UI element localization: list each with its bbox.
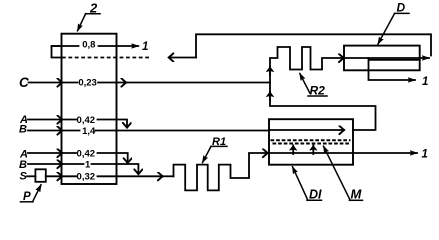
svg-text:1,4: 1,4 (82, 126, 96, 137)
wire D bottoms output (369, 70, 416, 80)
resistor R2 (meander) (270, 47, 344, 70)
svg-text:1: 1 (85, 160, 91, 171)
wire S to column (46, 175, 62, 177)
label 2 (78, 0, 101, 30)
svg-text:B: B (19, 124, 27, 136)
svg-text:0,42: 0,42 (77, 148, 96, 159)
label DI (293, 167, 323, 202)
wire feed through DI with arrow (269, 129, 344, 131)
wire 1 line merging down (62, 164, 138, 174)
wire recycle top run from D exit (196, 34, 431, 57)
svg-text:0,32: 0,32 (77, 172, 96, 183)
wire 0,8 product line (52, 45, 139, 47)
permeate arrow 1 (292, 145, 294, 154)
label M (324, 146, 363, 201)
svg-text:1: 1 (422, 148, 428, 160)
column 2 (separator block) (62, 34, 117, 184)
permeate arrow 2 (312, 145, 314, 154)
svg-text:B: B (19, 159, 27, 171)
svg-text:M: M (351, 187, 363, 202)
svg-text:C: C (19, 75, 29, 90)
svg-text:1: 1 (422, 76, 428, 88)
wire recycle (dashed through column) (62, 57, 151, 59)
wire S feed (27, 175, 35, 177)
svg-text:0,23: 0,23 (78, 77, 97, 88)
module DI box (269, 119, 353, 165)
riser flow arrow 1 (269, 67, 271, 75)
D inner partition (369, 58, 420, 70)
label D (378, 1, 409, 45)
wire 0,42 line merging down (62, 153, 128, 163)
wire B feed (first) (28, 130, 62, 132)
svg-text:S: S (20, 171, 28, 183)
riser flow arrow 2 (269, 92, 271, 100)
wire A feed (first) (28, 119, 62, 121)
mixer loop rectangle at column inlet (52, 46, 62, 58)
distiller D box (344, 46, 420, 71)
wire recycle solid return with left arrow (169, 57, 196, 59)
wire A feed (second) (28, 152, 62, 154)
wire permeate product line (269, 152, 417, 154)
wire 0,23 run to riser junction (126, 82, 270, 84)
resistor R1 (meander) (174, 153, 268, 190)
wire C feed (29, 82, 63, 84)
wire B feed (second) (28, 163, 62, 165)
wire 1,4 line to module DI (62, 130, 269, 132)
label R1 (203, 136, 228, 163)
label P (21, 185, 42, 203)
membrane M (dashed pair) (271, 139, 351, 141)
wire through D (344, 57, 429, 59)
svg-text:0,42: 0,42 (77, 115, 96, 126)
wire 0,23 line to riser (62, 82, 126, 84)
wire to R1 inlet (163, 175, 174, 177)
svg-text:1: 1 (142, 41, 148, 53)
pump P (35, 169, 45, 182)
svg-text:0,8: 0,8 (82, 40, 95, 51)
wire 0,32 line to R1 (62, 175, 163, 177)
svg-text:D: D (397, 1, 406, 15)
wire retentate out of DI up to riser (270, 60, 376, 131)
label R2 (300, 74, 327, 98)
wire 0,42 line merging down (62, 120, 127, 128)
svg-text:DI: DI (309, 188, 322, 202)
